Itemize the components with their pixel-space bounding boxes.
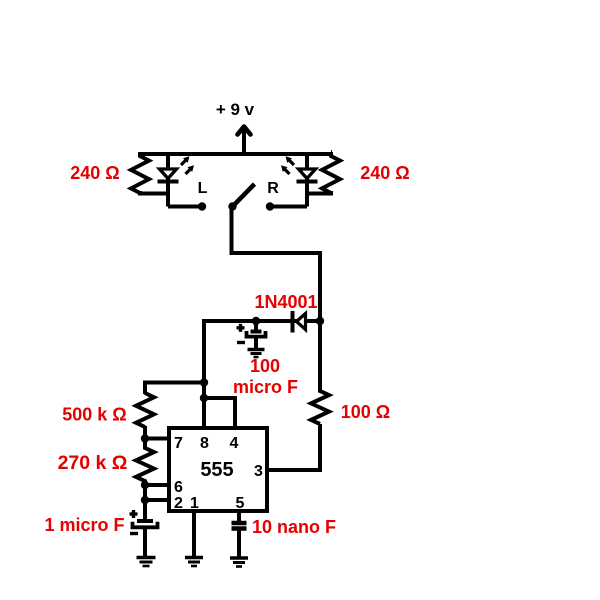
LED R light arrow 1 bbox=[286, 156, 295, 165]
resistor R1 240 ohm left bbox=[131, 152, 149, 193]
wire pin 4 bbox=[204, 398, 235, 428]
svg-text:8: 8 bbox=[200, 435, 209, 452]
resistor R2 240 ohm right bbox=[322, 152, 340, 193]
svg-text:10 nano F: 10 nano F bbox=[252, 517, 336, 537]
capacitor C2 1 micro F bbox=[133, 500, 158, 558]
wire resistor 500k to pin7 node bbox=[143, 426, 147, 439]
switch contact node R bbox=[266, 202, 274, 210]
node pin 7 bbox=[141, 434, 149, 442]
svg-text:L: L bbox=[198, 180, 208, 197]
capacitor C1 minus sign bbox=[237, 341, 245, 344]
LED L light arrow 2 bbox=[186, 165, 195, 174]
switch pole node bbox=[228, 202, 236, 210]
wire pin 6 bbox=[145, 483, 171, 487]
IC U1 555 body bbox=[169, 428, 267, 511]
node diode to right rail bbox=[316, 317, 324, 325]
svg-text:555: 555 bbox=[200, 459, 233, 481]
wire node to resistor 500k bbox=[145, 383, 204, 395]
diode D3 1N4001 bbox=[293, 311, 306, 333]
label 100 micro F bbox=[233, 356, 298, 397]
svg-text:270 k Ω: 270 k Ω bbox=[58, 452, 128, 474]
svg-text:240 Ω: 240 Ω bbox=[70, 163, 119, 183]
LED L (D1) bbox=[158, 152, 179, 207]
svg-text:3: 3 bbox=[254, 463, 263, 480]
resistor R3 500 k ohm bbox=[136, 393, 154, 427]
wire switch contact R to LED R bbox=[270, 205, 307, 209]
capacitor C2 minus sign bbox=[130, 532, 138, 535]
svg-text:1: 1 bbox=[190, 495, 199, 512]
svg-text:2: 2 bbox=[174, 495, 183, 512]
svg-text:4: 4 bbox=[230, 435, 239, 452]
wire left rail down to pin 8 bbox=[202, 319, 206, 428]
node capacitor C1 top bbox=[252, 317, 260, 325]
wire pin 7 bbox=[145, 437, 171, 441]
wire pin 3 bbox=[267, 424, 320, 470]
svg-text:240 Ω: 240 Ω bbox=[360, 163, 409, 183]
power arrow bbox=[238, 127, 251, 157]
svg-text:100 Ω: 100 Ω bbox=[341, 402, 390, 422]
svg-text:7: 7 bbox=[174, 435, 183, 452]
capacitor C1 100 micro F bbox=[247, 321, 266, 349]
wire pin6 node to pin2 node bbox=[143, 485, 147, 500]
svg-text:6: 6 bbox=[174, 479, 183, 496]
svg-text:+ 9 v: + 9 v bbox=[216, 100, 255, 119]
svg-text:5: 5 bbox=[236, 495, 245, 512]
capacitor C1 plus sign bbox=[237, 324, 245, 332]
wire resistor-right bottom link bbox=[307, 191, 331, 194]
svg-text:100: 100 bbox=[250, 356, 280, 376]
resistor R5 100 ohm bbox=[311, 321, 329, 424]
svg-text:micro F: micro F bbox=[233, 377, 298, 397]
ground below C3 bbox=[230, 558, 248, 567]
wire pin 2 bbox=[145, 498, 171, 502]
switch contact node L bbox=[198, 202, 206, 210]
svg-text:500 k Ω: 500 k Ω bbox=[62, 405, 126, 425]
LED R light arrow 2 bbox=[281, 165, 290, 174]
wire switch pole down and right bbox=[232, 207, 321, 322]
switch lever bbox=[233, 184, 255, 207]
wire resistor-left bottom link bbox=[140, 191, 168, 194]
wire pin 5 down bbox=[237, 511, 241, 522]
resistor R4 270 k ohm bbox=[136, 439, 154, 486]
wire LED L to switch contact bbox=[168, 205, 202, 209]
svg-text:1 micro F: 1 micro F bbox=[44, 515, 124, 535]
wire pin 1 down bbox=[192, 511, 196, 558]
wire diode row horizontal bbox=[204, 319, 320, 323]
wire top rail bbox=[140, 152, 332, 156]
node pin 2 bbox=[141, 496, 149, 504]
ground below C2 bbox=[137, 558, 156, 567]
svg-text:1N4001: 1N4001 bbox=[254, 292, 317, 312]
capacitor C2 plus sign bbox=[130, 510, 138, 518]
wire rail right end down bbox=[331, 150, 332, 154]
LED R (D2) bbox=[297, 152, 318, 207]
LED L light arrow 1 bbox=[181, 156, 190, 165]
node timing network top bbox=[200, 378, 208, 386]
svg-text:R: R bbox=[267, 180, 279, 197]
ground below pin 1 bbox=[185, 558, 203, 567]
node pin 4 feed bbox=[200, 394, 208, 402]
node pin 6 bbox=[141, 481, 149, 489]
ground below C1 bbox=[248, 350, 265, 358]
capacitor C3 10 nano F bbox=[232, 523, 247, 558]
